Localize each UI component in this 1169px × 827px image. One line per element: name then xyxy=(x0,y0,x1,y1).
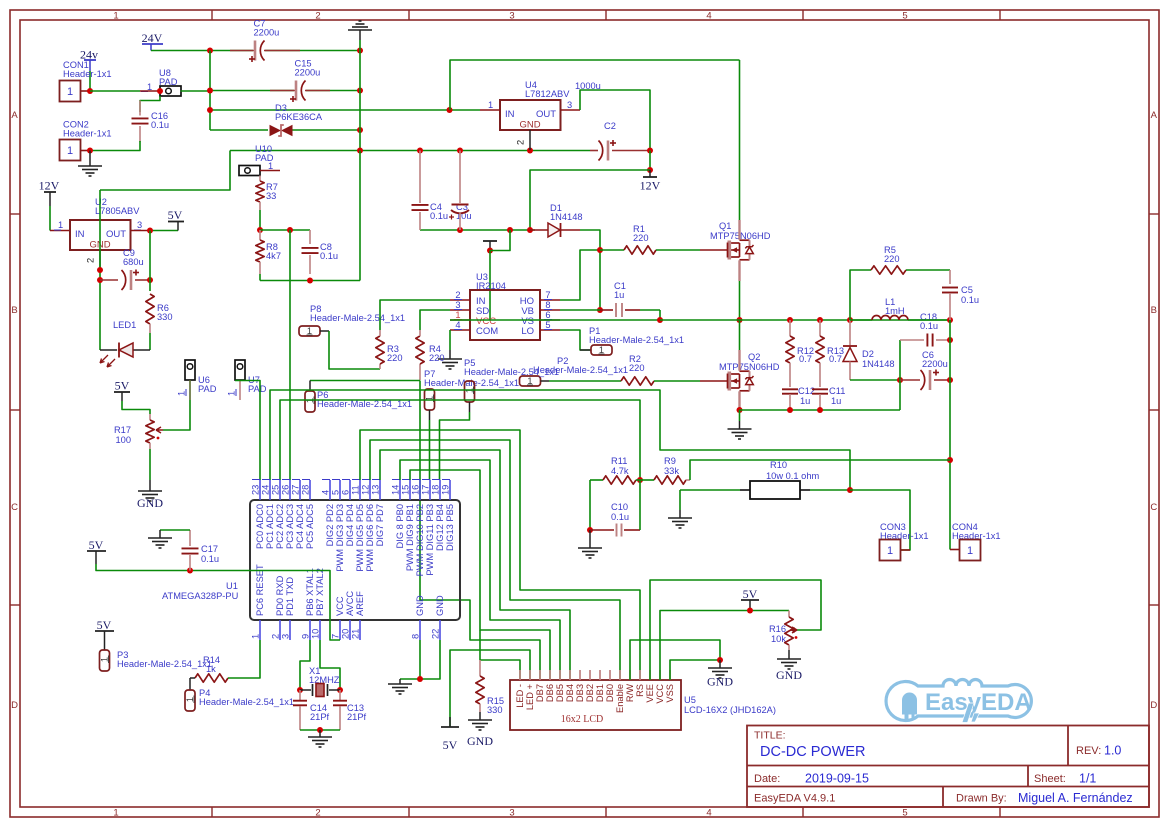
node CON1 junction xyxy=(87,88,93,94)
U1 pin 21 AREF xyxy=(359,620,361,640)
svg-text:1: 1 xyxy=(527,376,532,386)
svg-text:IN: IN xyxy=(75,229,85,240)
svg-text:R11: R11 xyxy=(611,456,627,466)
wire VS row to R12 R13 D2 xyxy=(660,319,950,321)
node y230 x510 xyxy=(507,227,513,233)
node y110 x210 xyxy=(207,107,213,113)
svg-text:PC2 ADC2: PC2 ADC2 xyxy=(275,504,285,549)
wire C16 to CON2 xyxy=(90,141,140,151)
svg-text:Sheet:: Sheet: xyxy=(1034,773,1066,785)
node LCD gnd xyxy=(717,657,723,663)
svg-text:Drawn By:: Drawn By: xyxy=(956,793,1007,805)
svg-text:5V: 5V xyxy=(97,618,112,632)
U3 pin stubs right xyxy=(540,299,560,301)
U1 pin 11 PWM DIG5 PD5 xyxy=(359,480,361,500)
svg-text:D: D xyxy=(11,700,18,711)
svg-text:5V: 5V xyxy=(168,208,183,222)
node R10 right xyxy=(847,487,853,493)
wire x900 vertical xyxy=(899,340,901,410)
svg-text:DB5: DB5 xyxy=(555,684,565,702)
frame row ticks right xyxy=(1149,213,1159,215)
svg-text:PC1 ADC1: PC1 ADC1 xyxy=(265,504,275,549)
svg-text:2: 2 xyxy=(271,634,281,639)
wire D3 row y130 xyxy=(210,129,268,131)
svg-text:U5: U5 xyxy=(684,695,696,705)
wire R10 left to ground xyxy=(680,489,740,491)
U1 pin 3 PD1 TXD xyxy=(289,620,291,640)
svg-text:330: 330 xyxy=(157,312,173,322)
svg-text:1N4148: 1N4148 xyxy=(862,359,895,369)
wire LO to P1 xyxy=(560,330,590,350)
U1 pin 6 DIG4 PD4 xyxy=(349,480,351,500)
U5 pin VEE xyxy=(649,670,651,680)
node VS x660 xyxy=(657,317,663,323)
ground R17 xyxy=(149,480,151,491)
svg-text:R9: R9 xyxy=(664,456,676,466)
U5 pin Enable xyxy=(619,670,621,680)
wire D2 anode to gnd net xyxy=(850,379,900,381)
svg-text:GND: GND xyxy=(707,675,733,689)
node switch node Q1/Q2 xyxy=(737,317,743,323)
U1 pin 27 PC4 ADC4 xyxy=(299,480,301,500)
wire 24V feed row y110 xyxy=(210,109,480,111)
node x950 y460 xyxy=(947,457,953,463)
svg-text:33k: 33k xyxy=(664,466,679,476)
wire U10 row y150 xyxy=(230,150,590,152)
svg-text:0.1u: 0.1u xyxy=(611,512,629,522)
svg-text:C5: C5 xyxy=(961,285,973,295)
U5 pin VSS xyxy=(669,670,671,680)
wire R6 to LED xyxy=(149,333,151,350)
wire VCC to 5V rail xyxy=(660,611,789,681)
node C9 left xyxy=(97,277,103,283)
svg-text:VEE: VEE xyxy=(645,684,655,703)
wire pin25 net to R11/R9 xyxy=(280,400,640,480)
svg-text:A: A xyxy=(1151,110,1158,121)
wire R4 bottom row to P6 xyxy=(310,380,420,382)
wire pin8 pin22 to ground xyxy=(420,640,440,679)
svg-text:5V: 5V xyxy=(443,738,458,752)
svg-text:100: 100 xyxy=(115,435,131,445)
svg-text:8: 8 xyxy=(411,634,421,639)
wire arch pin14 to DB5 xyxy=(400,460,560,680)
svg-text:220: 220 xyxy=(387,353,403,363)
svg-text:D: D xyxy=(1150,700,1157,711)
svg-text:ATMEGA328P-PU: ATMEGA328P-PU xyxy=(162,591,238,601)
wire HO to R1 xyxy=(560,250,600,300)
svg-text:24V: 24V xyxy=(142,31,163,45)
wire x640 down to C10 xyxy=(639,480,641,530)
svg-text:Q2: Q2 xyxy=(748,352,760,362)
svg-text:Header-1x1: Header-1x1 xyxy=(63,69,112,79)
wire crystal caps gnd xyxy=(300,729,340,731)
svg-text:PAD: PAD xyxy=(198,384,217,394)
node C8 bottom xyxy=(307,278,313,284)
svg-text:20: 20 xyxy=(341,629,351,639)
svg-text:6: 6 xyxy=(341,490,351,495)
node C2 right xyxy=(647,148,653,154)
frame column ticks top xyxy=(211,10,213,20)
ground C10 left xyxy=(589,530,591,548)
node C12 bottom xyxy=(787,407,793,413)
wire T to VCC drop xyxy=(490,230,510,251)
svg-text:16: 16 xyxy=(411,485,421,495)
net flag 5V (LCD backlight) xyxy=(449,717,451,727)
wire x360 y150-y280 xyxy=(359,151,361,281)
svg-text:DB7: DB7 xyxy=(535,684,545,702)
node C10 left xyxy=(587,527,593,533)
wire LED+ to 5V xyxy=(450,650,530,727)
svg-text:DIG2 PD2: DIG2 PD2 xyxy=(325,504,335,546)
wire Q2 gnd row y410 xyxy=(740,409,901,411)
node C18 right xyxy=(947,337,953,343)
svg-text:21Pf: 21Pf xyxy=(347,712,367,722)
wire VB row xyxy=(560,309,600,311)
svg-text:1.0: 1.0 xyxy=(1104,744,1121,758)
svg-text:Header-Male-2.54_1x1: Header-Male-2.54_1x1 xyxy=(589,335,684,345)
svg-text:LED -: LED - xyxy=(515,684,525,708)
wire vertical x210 xyxy=(209,51,211,131)
svg-text:3: 3 xyxy=(281,634,291,639)
svg-text:TITLE:: TITLE: xyxy=(754,730,786,742)
wire 12V tap to D1 branch xyxy=(530,170,650,230)
svg-text:1: 1 xyxy=(488,100,493,110)
svg-text:220: 220 xyxy=(429,353,445,363)
svg-text:GND: GND xyxy=(519,120,540,131)
ground at CON2 xyxy=(89,151,91,167)
svg-text:27: 27 xyxy=(291,485,301,495)
node crystal left xyxy=(297,687,303,693)
svg-text:4: 4 xyxy=(706,808,711,819)
U1 pin 7 VCC xyxy=(339,620,341,640)
svg-text:Header-Male-2.54_1x1: Header-Male-2.54_1x1 xyxy=(199,697,294,707)
ground top center xyxy=(359,20,362,22)
svg-text:DB2: DB2 xyxy=(585,684,595,702)
svg-text:1u: 1u xyxy=(831,396,841,406)
node D3 right xyxy=(357,127,363,133)
wire C1 right to VS xyxy=(659,310,661,320)
svg-text:22: 22 xyxy=(431,629,441,639)
wire C17 top to gnd xyxy=(160,529,190,531)
node y230 x530 xyxy=(527,227,533,233)
svg-text:1: 1 xyxy=(227,391,237,396)
svg-text:GND: GND xyxy=(776,668,802,682)
wire R17 bottom to GND xyxy=(149,449,151,480)
svg-text:A: A xyxy=(11,110,18,121)
svg-text:10w 0.1 ohm: 10w 0.1 ohm xyxy=(766,471,819,481)
wire R11 left down to C10 gnd xyxy=(589,480,591,530)
svg-text:P6KE36CA: P6KE36CA xyxy=(275,112,323,122)
wire COM to ground xyxy=(449,330,451,350)
node rail-C7 right xyxy=(357,48,363,54)
svg-text:1000u: 1000u xyxy=(575,81,601,91)
U1 pin 20 AVCC xyxy=(349,620,351,640)
U3 pin stubs left xyxy=(450,299,470,301)
wire P8 to R3 xyxy=(329,331,380,369)
node 12V tap xyxy=(647,167,653,173)
node R11-R9 junction xyxy=(637,477,643,483)
svg-text:GND: GND xyxy=(415,595,425,616)
svg-text:U1: U1 xyxy=(226,581,238,591)
svg-text:1: 1 xyxy=(455,310,460,320)
ground X1 xyxy=(319,730,321,737)
svg-text:4.7k: 4.7k xyxy=(611,466,629,476)
svg-text:16x2 LCD: 16x2 LCD xyxy=(561,714,604,725)
bare net flag (12V T) near U3 xyxy=(483,240,497,242)
wire 12V node down xyxy=(649,151,651,171)
svg-text:C10: C10 xyxy=(611,502,628,512)
svg-text:PWM DIG5 PD5: PWM DIG5 PD5 xyxy=(355,504,365,572)
wire y150 to y190 jog xyxy=(100,151,230,191)
U5 pin RS xyxy=(639,670,641,680)
wire x360 vertical gnd rail xyxy=(359,51,361,151)
svg-text:1/1: 1/1 xyxy=(1079,772,1096,786)
svg-text:5: 5 xyxy=(545,320,550,330)
wire Q2 drain up to switch node xyxy=(739,320,741,350)
ground U3 COM xyxy=(449,350,451,359)
svg-text:C11: C11 xyxy=(829,386,845,396)
svg-text:9: 9 xyxy=(301,634,311,639)
wire Q2 source down to gnd row xyxy=(738,391,740,410)
svg-text:0.1u: 0.1u xyxy=(201,554,219,564)
svg-text:1: 1 xyxy=(268,161,273,171)
svg-text:LED +: LED + xyxy=(525,684,535,710)
svg-text:1: 1 xyxy=(599,345,604,355)
svg-text:R16: R16 xyxy=(769,624,786,634)
svg-text:PWM DIG6 PD6: PWM DIG6 PD6 xyxy=(365,504,375,572)
node y320 x790 xyxy=(787,317,793,323)
svg-text:2: 2 xyxy=(315,808,320,819)
wire U2 OUT to 5V xyxy=(131,230,151,232)
svg-text:0.1u: 0.1u xyxy=(430,211,448,221)
svg-text:24: 24 xyxy=(261,485,271,495)
svg-text:DB6: DB6 xyxy=(545,684,555,702)
svg-text:IN: IN xyxy=(505,109,515,120)
svg-text:R/W: R/W xyxy=(625,684,635,702)
node C9 right xyxy=(147,277,153,283)
ground LCD xyxy=(719,660,721,668)
svg-text:7: 7 xyxy=(331,634,341,639)
node y150 x360 xyxy=(357,148,363,154)
wire 12V to U2 IN xyxy=(49,206,51,231)
node 5V R16 xyxy=(747,608,753,614)
svg-text:LO: LO xyxy=(521,326,534,337)
U1 pin 9 PB6 XTAL1 xyxy=(309,620,311,640)
svg-text:COM: COM xyxy=(476,326,498,337)
U1 pin 26 PC3 ADC3 xyxy=(289,480,291,500)
node y150 x460 xyxy=(457,148,463,154)
wire U2 OUT down to R6 xyxy=(149,231,151,292)
svg-text:Enable: Enable xyxy=(615,684,625,713)
svg-text:1: 1 xyxy=(67,86,73,98)
node crystal right xyxy=(337,687,343,693)
svg-text:C2: C2 xyxy=(604,121,616,131)
svg-text:12V: 12V xyxy=(39,179,60,193)
node Q2 source xyxy=(737,407,743,413)
svg-text:REV:: REV: xyxy=(1076,745,1101,757)
net flag 12V (mid) xyxy=(643,176,657,178)
svg-text:0.1u: 0.1u xyxy=(920,321,938,331)
svg-text:26: 26 xyxy=(281,485,291,495)
svg-text:15: 15 xyxy=(401,485,411,495)
node y230 x290 xyxy=(287,227,293,233)
ground R15 xyxy=(479,712,481,720)
svg-text:DIG12 PB4: DIG12 PB4 xyxy=(435,504,445,551)
svg-text:4k7: 4k7 xyxy=(266,251,281,261)
svg-text:2200u: 2200u xyxy=(922,359,948,369)
wire C15 row xyxy=(210,90,294,92)
svg-text:4: 4 xyxy=(706,11,711,22)
svg-text:4: 4 xyxy=(321,490,331,495)
wire 24v flag to CON1 node xyxy=(89,71,91,91)
wire arch pin11 to RS xyxy=(360,430,640,680)
U1 pin 17 PWM DIG11 PB3 xyxy=(429,480,431,500)
svg-text:C: C xyxy=(1150,502,1157,513)
wire node to CON3 xyxy=(850,490,910,550)
wire P7 to pin17 xyxy=(429,420,431,480)
svg-text:1: 1 xyxy=(113,11,118,22)
pin 2 U2 GND xyxy=(99,250,101,270)
svg-text:1: 1 xyxy=(251,634,261,639)
wire VCC/VS row y320 xyxy=(450,319,660,321)
svg-text:33: 33 xyxy=(266,191,276,201)
wire C4C3 row y230 xyxy=(420,229,535,231)
ground R10 left xyxy=(679,490,681,510)
wire x100 vertical (gnd net) xyxy=(99,190,101,350)
svg-text:PAD: PAD xyxy=(248,384,267,394)
U1 pin 8 GND xyxy=(419,620,421,640)
svg-text:C: C xyxy=(11,502,18,513)
U1 pin 23 PC0 ADC0 xyxy=(259,480,261,500)
svg-text:23: 23 xyxy=(251,485,261,495)
node C11 bottom xyxy=(817,407,823,413)
wire U8 pad to C16 xyxy=(140,96,160,112)
U5 pin R/W xyxy=(629,670,631,680)
svg-text:2: 2 xyxy=(516,140,526,145)
svg-text:Header-1x1: Header-1x1 xyxy=(63,129,112,139)
node caps gnd mid xyxy=(317,727,323,733)
wire U4 IN pin xyxy=(480,109,500,111)
svg-text:6: 6 xyxy=(545,310,550,320)
U5 pin DB5 xyxy=(559,670,561,680)
node C15 right xyxy=(357,88,363,94)
svg-text:2019-09-15: 2019-09-15 xyxy=(805,772,869,786)
wire output rail x950 xyxy=(949,320,951,550)
svg-text:3: 3 xyxy=(509,808,514,819)
wire U4 OUT to 1000u node xyxy=(561,109,581,111)
node C15 left xyxy=(207,88,213,94)
wire D1 cathode to VB node xyxy=(580,230,600,310)
svg-text:0.7: 0.7 xyxy=(829,354,842,364)
svg-text:PWM DIG11 PB3: PWM DIG11 PB3 xyxy=(425,504,435,576)
svg-text:12: 12 xyxy=(361,485,371,495)
node pin8 gnd xyxy=(417,676,423,682)
svg-text:2200u: 2200u xyxy=(254,28,280,38)
svg-text:220: 220 xyxy=(629,363,645,373)
svg-text:R17: R17 xyxy=(114,425,131,435)
svg-text:DB1: DB1 xyxy=(595,684,605,702)
svg-text:680u: 680u xyxy=(123,257,144,267)
node y150 x420 xyxy=(417,148,423,154)
node y320 x850 (D2/R5) xyxy=(847,317,853,323)
svg-text:1u: 1u xyxy=(800,396,810,406)
svg-text:OUT: OUT xyxy=(536,109,556,120)
svg-text:13: 13 xyxy=(371,485,381,495)
svg-text:3: 3 xyxy=(567,100,572,110)
svg-text:DB3: DB3 xyxy=(575,684,585,702)
U1 pin 24 PC1 ADC1 xyxy=(269,480,271,500)
U5 pin DB4 xyxy=(569,670,571,680)
svg-text:3: 3 xyxy=(455,300,460,310)
wire node to C8 xyxy=(260,229,310,231)
wire R10 right to node xyxy=(810,489,850,491)
node rail-C7 left xyxy=(207,48,213,54)
pin 2 U4 GND xyxy=(529,130,531,150)
svg-text:Q1: Q1 xyxy=(719,221,731,231)
wire pin9 to crystal xyxy=(300,640,310,690)
U5 pin DB7 xyxy=(539,670,541,680)
svg-text:5V: 5V xyxy=(115,379,130,393)
wire Q1 source down xyxy=(738,260,740,281)
wire P5 to pin18 xyxy=(440,412,470,480)
svg-text:Header-Male-2.54_1x1: Header-Male-2.54_1x1 xyxy=(424,378,519,388)
svg-text:5: 5 xyxy=(331,490,341,495)
svg-text:VSS: VSS xyxy=(665,684,675,703)
svg-text:2: 2 xyxy=(455,290,460,300)
svg-text:3: 3 xyxy=(137,220,142,230)
svg-text:5: 5 xyxy=(902,808,907,819)
svg-text:0.1u: 0.1u xyxy=(320,251,338,261)
svg-text:DIG4 PD4: DIG4 PD4 xyxy=(345,504,355,546)
svg-text:0.1u: 0.1u xyxy=(151,120,169,130)
ground U1 xyxy=(399,679,401,684)
wire 5V to R17 xyxy=(122,401,150,414)
wire 24V rail top xyxy=(151,50,253,52)
svg-text:11: 11 xyxy=(351,485,361,495)
svg-text:LED1: LED1 xyxy=(113,320,136,330)
svg-text:1: 1 xyxy=(887,545,893,557)
svg-text:DIG7 PD7: DIG7 PD7 xyxy=(375,504,385,546)
svg-text:1N4148: 1N4148 xyxy=(550,212,583,222)
svg-text:DIG13 PB5: DIG13 PB5 xyxy=(445,504,455,551)
svg-text:10: 10 xyxy=(311,629,321,639)
svg-text:LCD-16X2 (JHD162A): LCD-16X2 (JHD162A) xyxy=(684,705,776,715)
wire R/W to gnd xyxy=(630,640,720,680)
svg-text:PC4 ADC4: PC4 ADC4 xyxy=(295,504,305,549)
svg-text:EasyEDA: EasyEDA xyxy=(925,689,1032,716)
ground R16 xyxy=(788,650,790,659)
svg-text:4: 4 xyxy=(455,320,460,330)
svg-text:12V: 12V xyxy=(640,179,661,193)
svg-text:PWM DIG9 PB1: PWM DIG9 PB1 xyxy=(405,504,415,571)
wire pin24 net long xyxy=(270,390,850,490)
svg-text:PB6 XTAL1: PB6 XTAL1 xyxy=(305,568,315,616)
U1 pin 12 PWM DIG6 PD6 xyxy=(369,480,371,500)
svg-text:1: 1 xyxy=(177,391,187,396)
wire R14 to pin1 RESET xyxy=(228,640,260,678)
svg-text:Header-Male-2.54_1x1: Header-Male-2.54_1x1 xyxy=(310,313,405,323)
node y150 x530 xyxy=(527,148,533,154)
U5 pin DB1 xyxy=(599,670,601,680)
wire R8/C8 bottom to x360 xyxy=(260,280,360,282)
U5 pin DB0 xyxy=(609,670,611,680)
svg-text:1mH: 1mH xyxy=(885,306,905,316)
U1 pin 19 DIG13 PB5 xyxy=(449,480,451,500)
svg-text:Header-Male-2.54_1x1: Header-Male-2.54_1x1 xyxy=(464,367,559,377)
wire LED- to R15 xyxy=(480,660,520,680)
wire R3 top to U3 IN xyxy=(380,300,450,330)
svg-text:AREF: AREF xyxy=(355,591,365,616)
